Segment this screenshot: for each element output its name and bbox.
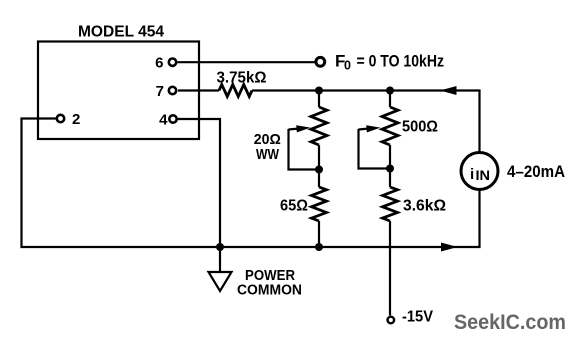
ground POWER COMMON triangle [209,272,232,291]
node junction top of pot 20ohm [315,87,323,95]
wire top to pot2 [389,91,391,108]
svg-text:500Ω: 500Ω [402,119,438,136]
potentiometer 500 ohm zigzag [382,107,398,145]
pot2 wiper arrow line [359,128,369,131]
terminal F0 circle [316,57,325,66]
svg-text:65Ω: 65Ω [280,198,308,215]
resistor 3.6k zigzag [383,187,398,221]
wire top rail from resistor to right corner, down to current source [252,91,480,153]
svg-text:4: 4 [159,112,168,129]
svg-text:WW: WW [256,146,280,163]
pin 4 terminal circle [169,115,176,122]
wire 65 ohm to common rail [318,221,320,247]
node junction 65ohm/common [315,243,323,251]
pot1 wiper arrow line [289,128,299,131]
terminal -15V circle [388,317,395,324]
pot1 wiper bracket wire [289,129,320,170]
svg-text:SeekIC.com: SeekIC.com [454,310,566,334]
resistor 65 ohm zigzag [312,187,327,221]
svg-text:IN: IN [476,168,491,183]
pin 6 terminal circle [169,59,176,66]
wire bottom rail and left branch to pin2 [22,119,480,248]
node junction pot2 bottom [386,165,394,173]
svg-text:4–20mA: 4–20mA [507,163,565,181]
potentiometer 20 ohm WW zigzag [311,107,327,145]
svg-text:-15V: -15V [402,309,434,326]
pot2 wiper bracket wire [359,129,391,169]
resistor 3.75k zigzag [219,85,252,97]
current source U1 iIN circle [461,153,498,190]
svg-text:7: 7 [156,83,164,100]
pin 2 terminal circle [57,115,64,122]
wire 3.6k down through rail to -15V terminal [389,221,391,315]
wire pin7 to resistor [178,89,219,91]
pot1 wiper arrowhead [296,125,310,132]
svg-text:i: i [470,166,474,183]
wire pot2 to 3.6k [389,145,391,187]
wire pot1 to 65 ohm [318,145,320,187]
svg-text:6: 6 [155,54,163,71]
svg-text:3.6kΩ: 3.6kΩ [403,198,446,215]
wire stem to power common ground [219,247,221,273]
svg-text:MODEL 454: MODEL 454 [78,24,164,41]
pot2 wiper arrowhead [366,125,380,132]
wire pin4 down to common rail [178,119,220,247]
node junction top of pot 500ohm [386,87,394,95]
svg-text:COMMON: COMMON [237,283,302,299]
enclosure box MODEL 454 [38,42,199,140]
wire top to pot1 [318,91,320,108]
node junction pot1 bottom [315,166,323,174]
svg-text:3.75kΩ: 3.75kΩ [217,70,267,87]
arrowhead on top rail pointing left [440,86,457,95]
arrowhead on bottom rail pointing right [441,243,458,252]
svg-text:2: 2 [72,111,80,128]
wire pin6 to F0 terminal [178,61,315,63]
pin 7 terminal circle [169,87,176,94]
node junction pin4/common [216,243,224,251]
